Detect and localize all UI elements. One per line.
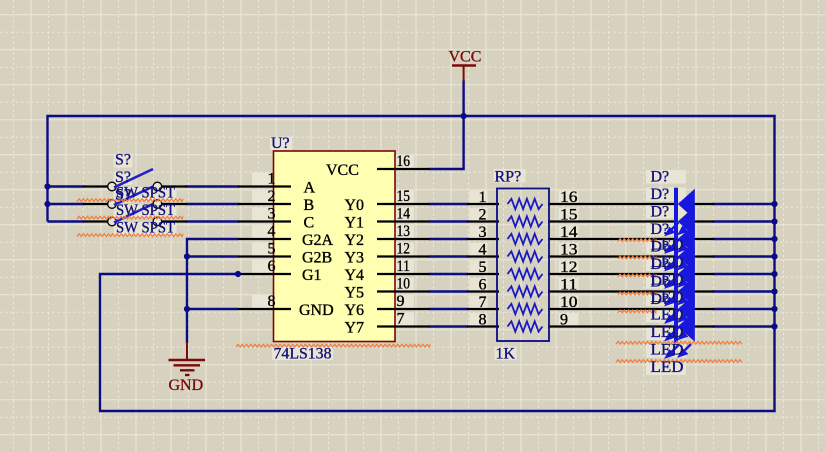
svg-text:4: 4 [479, 242, 487, 259]
svg-text:6: 6 [268, 258, 276, 275]
svg-text:A: A [304, 180, 316, 197]
svg-text:14: 14 [560, 224, 578, 241]
wire Y2 to RP pin [429, 238, 468, 240]
LED D6 triangle [678, 276, 695, 307]
squiggle right 1 [618, 239, 656, 242]
wire GND pin stub [187, 308, 238, 310]
LED D6 cathode bar [674, 275, 678, 308]
box pin number 10 U? [395, 278, 414, 292]
svg-text:C: C [304, 215, 315, 232]
LED D6 arrow 2 [678, 309, 692, 323]
svg-text:S?: S? [115, 169, 131, 186]
node junction 6 [235, 271, 241, 277]
pin 2 RP? [467, 220, 499, 222]
label box D2 [646, 188, 686, 202]
LED D2 arrow 2 [678, 239, 692, 253]
label box LED5 [646, 309, 686, 323]
wire switch row C left [48, 220, 85, 222]
label box D1 [646, 170, 686, 184]
wire Y3 to RP pin [429, 255, 468, 257]
LED D4 arrow 1 [665, 275, 679, 289]
label box SW SPST 3 [114, 222, 177, 236]
ground symbol [169, 342, 206, 375]
LED D7 arrow 2 [678, 327, 692, 341]
box pin number 2 RP? [470, 208, 488, 221]
label box D4 [646, 223, 686, 237]
label box S1 [114, 154, 133, 168]
svg-text:G2A: G2A [302, 232, 334, 249]
label box 74LS138 [272, 347, 333, 361]
pin 12 U? [377, 255, 430, 257]
node junction 9 [771, 236, 777, 242]
pin 4 RP? [467, 255, 499, 257]
wire G2B stub [187, 255, 238, 257]
VCC power symbol [452, 66, 476, 82]
node junction 10 [771, 253, 777, 259]
svg-text:11: 11 [397, 258, 411, 275]
wire LED8 to bus [713, 325, 775, 327]
squiggle right 5 [618, 310, 656, 313]
LED D6 arrow 1 [665, 310, 679, 324]
box pin number 8 U? [252, 295, 274, 309]
box pin number 16 U? [395, 155, 414, 169]
pin 3 RP? [467, 238, 499, 240]
switch S1 blade [114, 169, 153, 188]
pin 1 U? [238, 185, 291, 187]
label box S2 [114, 172, 133, 186]
box pin number 13 RP? [559, 243, 579, 256]
svg-text:Y7: Y7 [345, 320, 365, 337]
wire Y1 to RP pin [429, 220, 468, 222]
resistor element 5 of RP? [508, 269, 543, 279]
wire main loop: left drop, top bus, right bus, bottom bus, G1 return [48, 116, 775, 411]
svg-text:GND: GND [169, 377, 204, 394]
label box D6 [646, 258, 686, 272]
label box D8 [646, 293, 686, 307]
box pin number 6 RP? [470, 278, 488, 291]
pin 13 U? [377, 238, 430, 240]
wire LED3 to bus [713, 238, 775, 240]
box pin number 14 U? [395, 208, 414, 222]
squiggle right 3 [618, 274, 656, 277]
pin 11 RP? / LED6 anode lead [548, 290, 675, 292]
svg-text:7: 7 [479, 294, 487, 311]
pin switch S3 left lead [83, 220, 109, 222]
label box SW SPST 1 [114, 187, 177, 201]
resistor element 8 of RP? [508, 321, 543, 331]
pin 4 U? [238, 238, 291, 240]
svg-text:15: 15 [397, 188, 411, 205]
pin 7 RP? [467, 308, 499, 310]
pin 16 RP? / LED1 anode lead [548, 203, 675, 205]
box pin number 12 U? [395, 243, 414, 257]
svg-text:Y5: Y5 [345, 285, 365, 302]
wire LED5 to bus [713, 273, 775, 275]
box pin number 7 RP? [470, 296, 488, 309]
box pin number 3 U? [252, 208, 274, 222]
wire LED4 to bus [713, 255, 775, 257]
resistor element 2 of RP? [508, 216, 543, 226]
squiggle right 2 [618, 256, 656, 259]
box pin number 6 U? [252, 260, 274, 274]
svg-text:D?: D? [651, 239, 670, 256]
pin 7 U? [377, 325, 430, 327]
node junction 13 [771, 306, 777, 312]
pin LED5 cathode lead [694, 273, 714, 275]
box pin number 12 RP? [559, 261, 579, 274]
svg-text:RP?: RP? [495, 169, 522, 186]
LED D8 arrow 2 [678, 344, 692, 358]
svg-text:Y4: Y4 [345, 267, 365, 284]
box pin number 9 RP? [559, 313, 579, 326]
pin 10 RP? / LED7 anode lead [548, 308, 675, 310]
pin LED2 cathode lead [694, 220, 714, 222]
squiggle under SW SPST 3 [77, 234, 183, 237]
svg-text:3: 3 [268, 206, 276, 223]
wire Y6 to RP pin [429, 308, 468, 310]
label box LED2 [646, 257, 686, 271]
svg-text:7: 7 [397, 311, 405, 328]
switch S2 blade [114, 187, 153, 206]
pin LED6 cathode lead [694, 290, 714, 292]
svg-text:1K: 1K [496, 346, 516, 363]
svg-text:D?: D? [651, 186, 670, 203]
wire switch row A left [48, 185, 85, 187]
svg-text:D?: D? [651, 256, 670, 273]
svg-text:D?: D? [651, 291, 670, 308]
label box LED4 [646, 292, 686, 306]
node junction 11 [771, 271, 777, 277]
wire Y4 to RP pin [429, 273, 468, 275]
LED D1 triangle [678, 189, 695, 220]
wire Y0 to RP pin [429, 203, 468, 205]
box pin number 7 U? [395, 313, 414, 327]
LED D2 arrow 1 [665, 240, 679, 254]
box pin number 16 RP? [559, 191, 579, 204]
LED D8 triangle [678, 311, 695, 342]
node junction 8 [771, 218, 777, 224]
box pin number 15 RP? [559, 208, 579, 221]
resistor pack RP? box [497, 189, 549, 342]
box pin number 3 RP? [470, 226, 488, 239]
label box D3 [646, 205, 686, 219]
switch S3 blade [114, 204, 153, 223]
resistor element 7 of RP? [508, 304, 543, 314]
svg-text:3: 3 [479, 224, 487, 241]
pin 3 U? [238, 220, 291, 222]
LED D3 arrow 2 [678, 257, 692, 271]
node junction 2 [44, 201, 50, 207]
wire LED2 to bus [713, 220, 775, 222]
svg-text:1: 1 [268, 171, 276, 188]
label box LED7 [646, 344, 686, 358]
svg-text:9: 9 [560, 312, 568, 329]
svg-text:13: 13 [397, 223, 411, 240]
LED D5 arrow 1 [665, 293, 679, 307]
squiggle under SW SPST 2 [77, 216, 183, 219]
node junction 4 [184, 253, 190, 259]
svg-text:Y2: Y2 [345, 232, 365, 249]
svg-text:6: 6 [479, 277, 487, 294]
svg-text:LED: LED [651, 359, 684, 376]
label box LED3 [646, 274, 686, 288]
wire switch row B right [186, 203, 239, 205]
wire switch row A right [186, 185, 239, 187]
label box D7 [646, 275, 686, 289]
svg-text:LED: LED [651, 324, 684, 341]
svg-text:2: 2 [268, 188, 276, 205]
pin 10 U? [377, 290, 430, 292]
LED D3 arrow 1 [665, 258, 679, 272]
box pin number 5 U? [252, 243, 274, 257]
svg-text:10: 10 [397, 276, 411, 293]
LED D8 arrow 1 [665, 345, 679, 359]
svg-text:74LS138: 74LS138 [274, 346, 332, 363]
box pin number 15 U? [395, 190, 414, 204]
node junction 5 [184, 306, 190, 312]
switch S1 right contact [153, 182, 162, 191]
svg-text:16: 16 [397, 153, 411, 170]
svg-text:14: 14 [397, 206, 411, 223]
wire switch row B left [48, 203, 85, 205]
svg-text:15: 15 [560, 207, 578, 224]
squiggle under SW SPST 1 [77, 199, 183, 202]
wire Y5 to RP pin [429, 290, 468, 292]
svg-text:16: 16 [560, 189, 578, 206]
pin switch S2 right lead [161, 203, 188, 205]
LED D3 triangle [678, 224, 695, 255]
pin 5 U? [238, 255, 291, 257]
pin 6 U? [238, 273, 291, 275]
wire LED7 to bus [713, 308, 775, 310]
wire Y7 to RP pin [429, 325, 468, 327]
wire G2A to vertical [187, 239, 238, 343]
label box LED6 [646, 327, 686, 341]
svg-text:8: 8 [479, 312, 487, 329]
svg-text:D?: D? [651, 169, 670, 186]
pin 14 RP? / LED3 anode lead [548, 238, 675, 240]
LED D8 cathode bar [674, 310, 678, 343]
switch S3 right contact [153, 217, 162, 226]
pin LED7 cathode lead [694, 308, 714, 310]
svg-text:12: 12 [560, 259, 578, 276]
pin 6 RP? [467, 290, 499, 292]
svg-text:Y0: Y0 [345, 197, 365, 214]
box pin number 1 U? [252, 173, 274, 187]
label box 1K [495, 347, 517, 361]
box pin number 14 RP? [559, 226, 579, 239]
pin 16 U? [377, 168, 430, 170]
wire VCC drop to pin16 [429, 80, 464, 169]
pin LED3 cathode lead [694, 238, 714, 240]
svg-text:12: 12 [397, 241, 411, 258]
node junction 7 [771, 201, 777, 207]
pin switch S3 right lead [161, 220, 188, 222]
node junction 1 [44, 183, 50, 189]
squiggle under 74LS138 [236, 344, 430, 347]
label box LED8 [646, 362, 686, 376]
squiggle wide 2 [616, 360, 742, 363]
svg-text:G2B: G2B [302, 250, 332, 267]
svg-text:G1: G1 [302, 267, 322, 284]
pin 2 U? [238, 203, 291, 205]
svg-text:U?: U? [271, 135, 290, 152]
box pin number 8 RP? [470, 313, 488, 326]
switch S2 right contact [153, 200, 162, 209]
svg-text:D?: D? [651, 274, 670, 291]
pin switch S1 right lead [161, 185, 188, 187]
svg-text:Y6: Y6 [345, 302, 365, 319]
pin 13 RP? / LED4 anode lead [548, 255, 675, 257]
squiggle wide 1 [616, 341, 742, 344]
pin LED1 cathode lead [694, 203, 714, 205]
IC U? 74LS138 body [274, 151, 396, 342]
wire LED6 to bus [713, 290, 775, 292]
svg-text:D?: D? [651, 204, 670, 221]
pin 15 RP? / LED2 anode lead [548, 220, 675, 222]
box pin number 10 RP? [559, 296, 579, 309]
box pin number 11 RP? [559, 278, 579, 291]
label box S3 [114, 189, 133, 203]
svg-text:S?: S? [115, 152, 131, 169]
svg-text:2: 2 [479, 207, 487, 224]
pin 8 U? [238, 308, 291, 310]
pin 12 RP? / LED5 anode lead [548, 273, 675, 275]
svg-text:5: 5 [268, 241, 276, 258]
svg-text:GND: GND [299, 302, 334, 319]
resistor element 3 of RP? [508, 234, 543, 244]
LED D2 triangle [678, 206, 695, 237]
svg-text:13: 13 [560, 242, 578, 259]
LED D3 cathode bar [674, 223, 678, 256]
svg-text:VCC: VCC [449, 49, 482, 66]
LED D4 triangle [678, 241, 695, 272]
svg-text:11: 11 [560, 277, 578, 294]
svg-text:SW SPST: SW SPST [116, 202, 175, 219]
LED D1 arrow 2 [678, 222, 692, 236]
box pin number 4 RP? [470, 243, 488, 256]
box pin number 5 RP? [470, 261, 488, 274]
switch S3 left contact [108, 217, 117, 226]
box pin number 4 U? [252, 225, 274, 239]
svg-text:LED: LED [651, 307, 684, 324]
svg-text:Y1: Y1 [345, 215, 365, 232]
LED D5 cathode bar [674, 258, 678, 291]
node junction 14 [771, 323, 777, 329]
pin 5 RP? [467, 273, 499, 275]
pin switch S2 left lead [83, 203, 109, 205]
LED D2 cathode bar [674, 205, 678, 238]
LED D4 cathode bar [674, 240, 678, 273]
svg-text:S?: S? [115, 187, 131, 204]
resistor element 4 of RP? [508, 251, 543, 261]
pin 9 RP? / LED8 anode lead [548, 325, 675, 327]
svg-text:1: 1 [479, 189, 487, 206]
wire switch row C right [186, 220, 239, 222]
label box D5 [646, 240, 686, 254]
box pin number 9 U? [395, 295, 414, 309]
label box RP? [494, 169, 526, 183]
resistor element 6 of RP? [508, 286, 543, 296]
node junction 3 [461, 113, 467, 119]
box pin number 13 U? [395, 225, 414, 239]
LED D5 triangle [678, 259, 695, 290]
LED D7 cathode bar [674, 293, 678, 326]
label box SW SPST 2 [114, 205, 177, 219]
box pin number 2 U? [252, 190, 274, 204]
pin 9 U? [377, 308, 430, 310]
pin 1 RP? [467, 203, 499, 205]
svg-text:10: 10 [560, 294, 578, 311]
switch S2 left contact [108, 200, 117, 209]
LED D4 arrow 2 [678, 274, 692, 288]
svg-text:5: 5 [479, 259, 487, 276]
wire LED1 to bus [713, 203, 775, 205]
svg-text:8: 8 [268, 293, 276, 310]
box pin number 11 U? [395, 260, 414, 274]
svg-text:D?: D? [651, 221, 670, 238]
label box U? [270, 137, 292, 151]
resistor element 1 of RP? [508, 199, 543, 209]
pin 14 U? [377, 220, 430, 222]
pin 15 U? [377, 203, 430, 205]
svg-text:B: B [304, 197, 315, 214]
box pin number 1 RP? [470, 191, 488, 204]
squiggle right 4 [618, 292, 656, 295]
LED D7 triangle [678, 294, 695, 325]
node junction 12 [771, 288, 777, 294]
svg-text:9: 9 [397, 293, 405, 310]
pin LED4 cathode lead [694, 255, 714, 257]
LED D1 arrow 1 [665, 223, 679, 237]
svg-text:4: 4 [268, 223, 276, 240]
LED D7 arrow 1 [665, 328, 679, 342]
LED D1 cathode bar [674, 188, 678, 221]
label box LED1 [646, 239, 686, 253]
LED D5 arrow 2 [678, 292, 692, 306]
svg-text:Y3: Y3 [345, 250, 365, 267]
svg-text:LED: LED [651, 342, 684, 359]
pin 11 U? [377, 273, 430, 275]
switch S1 left contact [108, 182, 117, 191]
pin switch S1 left lead [83, 185, 109, 187]
pin 8 RP? [467, 325, 499, 327]
pin LED8 cathode lead [694, 325, 714, 327]
svg-text:VCC: VCC [326, 162, 359, 179]
svg-text:SW SPST: SW SPST [116, 220, 175, 237]
